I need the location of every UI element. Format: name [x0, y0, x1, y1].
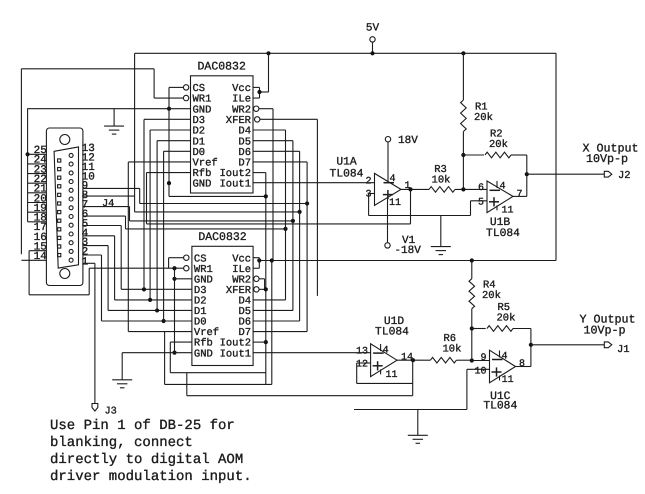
svg-text:11: 11 — [389, 198, 401, 209]
svg-text:DAC0832: DAC0832 — [198, 61, 246, 74]
svg-text:driver modulation input.: driver modulation input. — [50, 469, 252, 485]
svg-text:GND: GND — [194, 348, 213, 360]
svg-text:2: 2 — [365, 177, 371, 188]
svg-text:J3: J3 — [105, 406, 117, 418]
svg-text:11: 11 — [502, 205, 514, 216]
svg-text:4: 4 — [500, 182, 506, 193]
svg-text:18V: 18V — [398, 135, 418, 147]
svg-text:8: 8 — [519, 359, 525, 370]
svg-text:4: 4 — [383, 345, 389, 356]
svg-text:J1: J1 — [617, 344, 630, 356]
svg-text:11: 11 — [386, 370, 398, 381]
svg-text:14: 14 — [34, 251, 48, 263]
svg-text:20k: 20k — [474, 112, 493, 124]
svg-text:10k: 10k — [443, 344, 462, 356]
svg-text:10k: 10k — [432, 175, 451, 187]
svg-text:13: 13 — [356, 347, 368, 358]
svg-text:10Vp-p: 10Vp-p — [583, 324, 625, 338]
svg-text:U1A: U1A — [336, 157, 357, 169]
svg-text:9: 9 — [480, 353, 486, 364]
svg-text:TL084: TL084 — [375, 327, 409, 339]
svg-text:GND: GND — [193, 179, 212, 191]
svg-text:directly to digital AOM: directly to digital AOM — [50, 452, 243, 468]
svg-text:11: 11 — [502, 375, 514, 386]
svg-text:-18V: -18V — [394, 245, 421, 257]
svg-text:J2: J2 — [618, 170, 631, 182]
svg-text:TL084: TL084 — [483, 401, 517, 413]
svg-text:4: 4 — [502, 352, 508, 363]
svg-text:J4: J4 — [102, 198, 114, 210]
svg-text:12: 12 — [356, 360, 368, 371]
svg-text:5: 5 — [478, 198, 484, 209]
svg-text:6: 6 — [478, 183, 484, 194]
svg-text:Iout1: Iout1 — [219, 179, 251, 191]
svg-text:Use Pin 1 of DB-25 for: Use Pin 1 of DB-25 for — [50, 418, 235, 434]
svg-text:20k: 20k — [482, 290, 501, 302]
svg-text:5V: 5V — [366, 23, 380, 35]
svg-text:1: 1 — [82, 257, 89, 269]
svg-text:10Vp-p: 10Vp-p — [586, 152, 628, 166]
svg-text:7: 7 — [517, 190, 523, 201]
svg-text:TL084: TL084 — [486, 228, 520, 240]
svg-text:TL084: TL084 — [330, 169, 364, 181]
svg-text:10: 10 — [474, 367, 486, 378]
svg-text:20k: 20k — [497, 313, 516, 325]
svg-text:DAC0832: DAC0832 — [198, 231, 246, 244]
svg-text:blanking, connect: blanking, connect — [50, 435, 193, 451]
svg-text:Iout1: Iout1 — [220, 348, 252, 360]
svg-text:20k: 20k — [489, 139, 508, 151]
svg-text:14: 14 — [401, 353, 413, 364]
svg-text:4: 4 — [390, 174, 396, 185]
